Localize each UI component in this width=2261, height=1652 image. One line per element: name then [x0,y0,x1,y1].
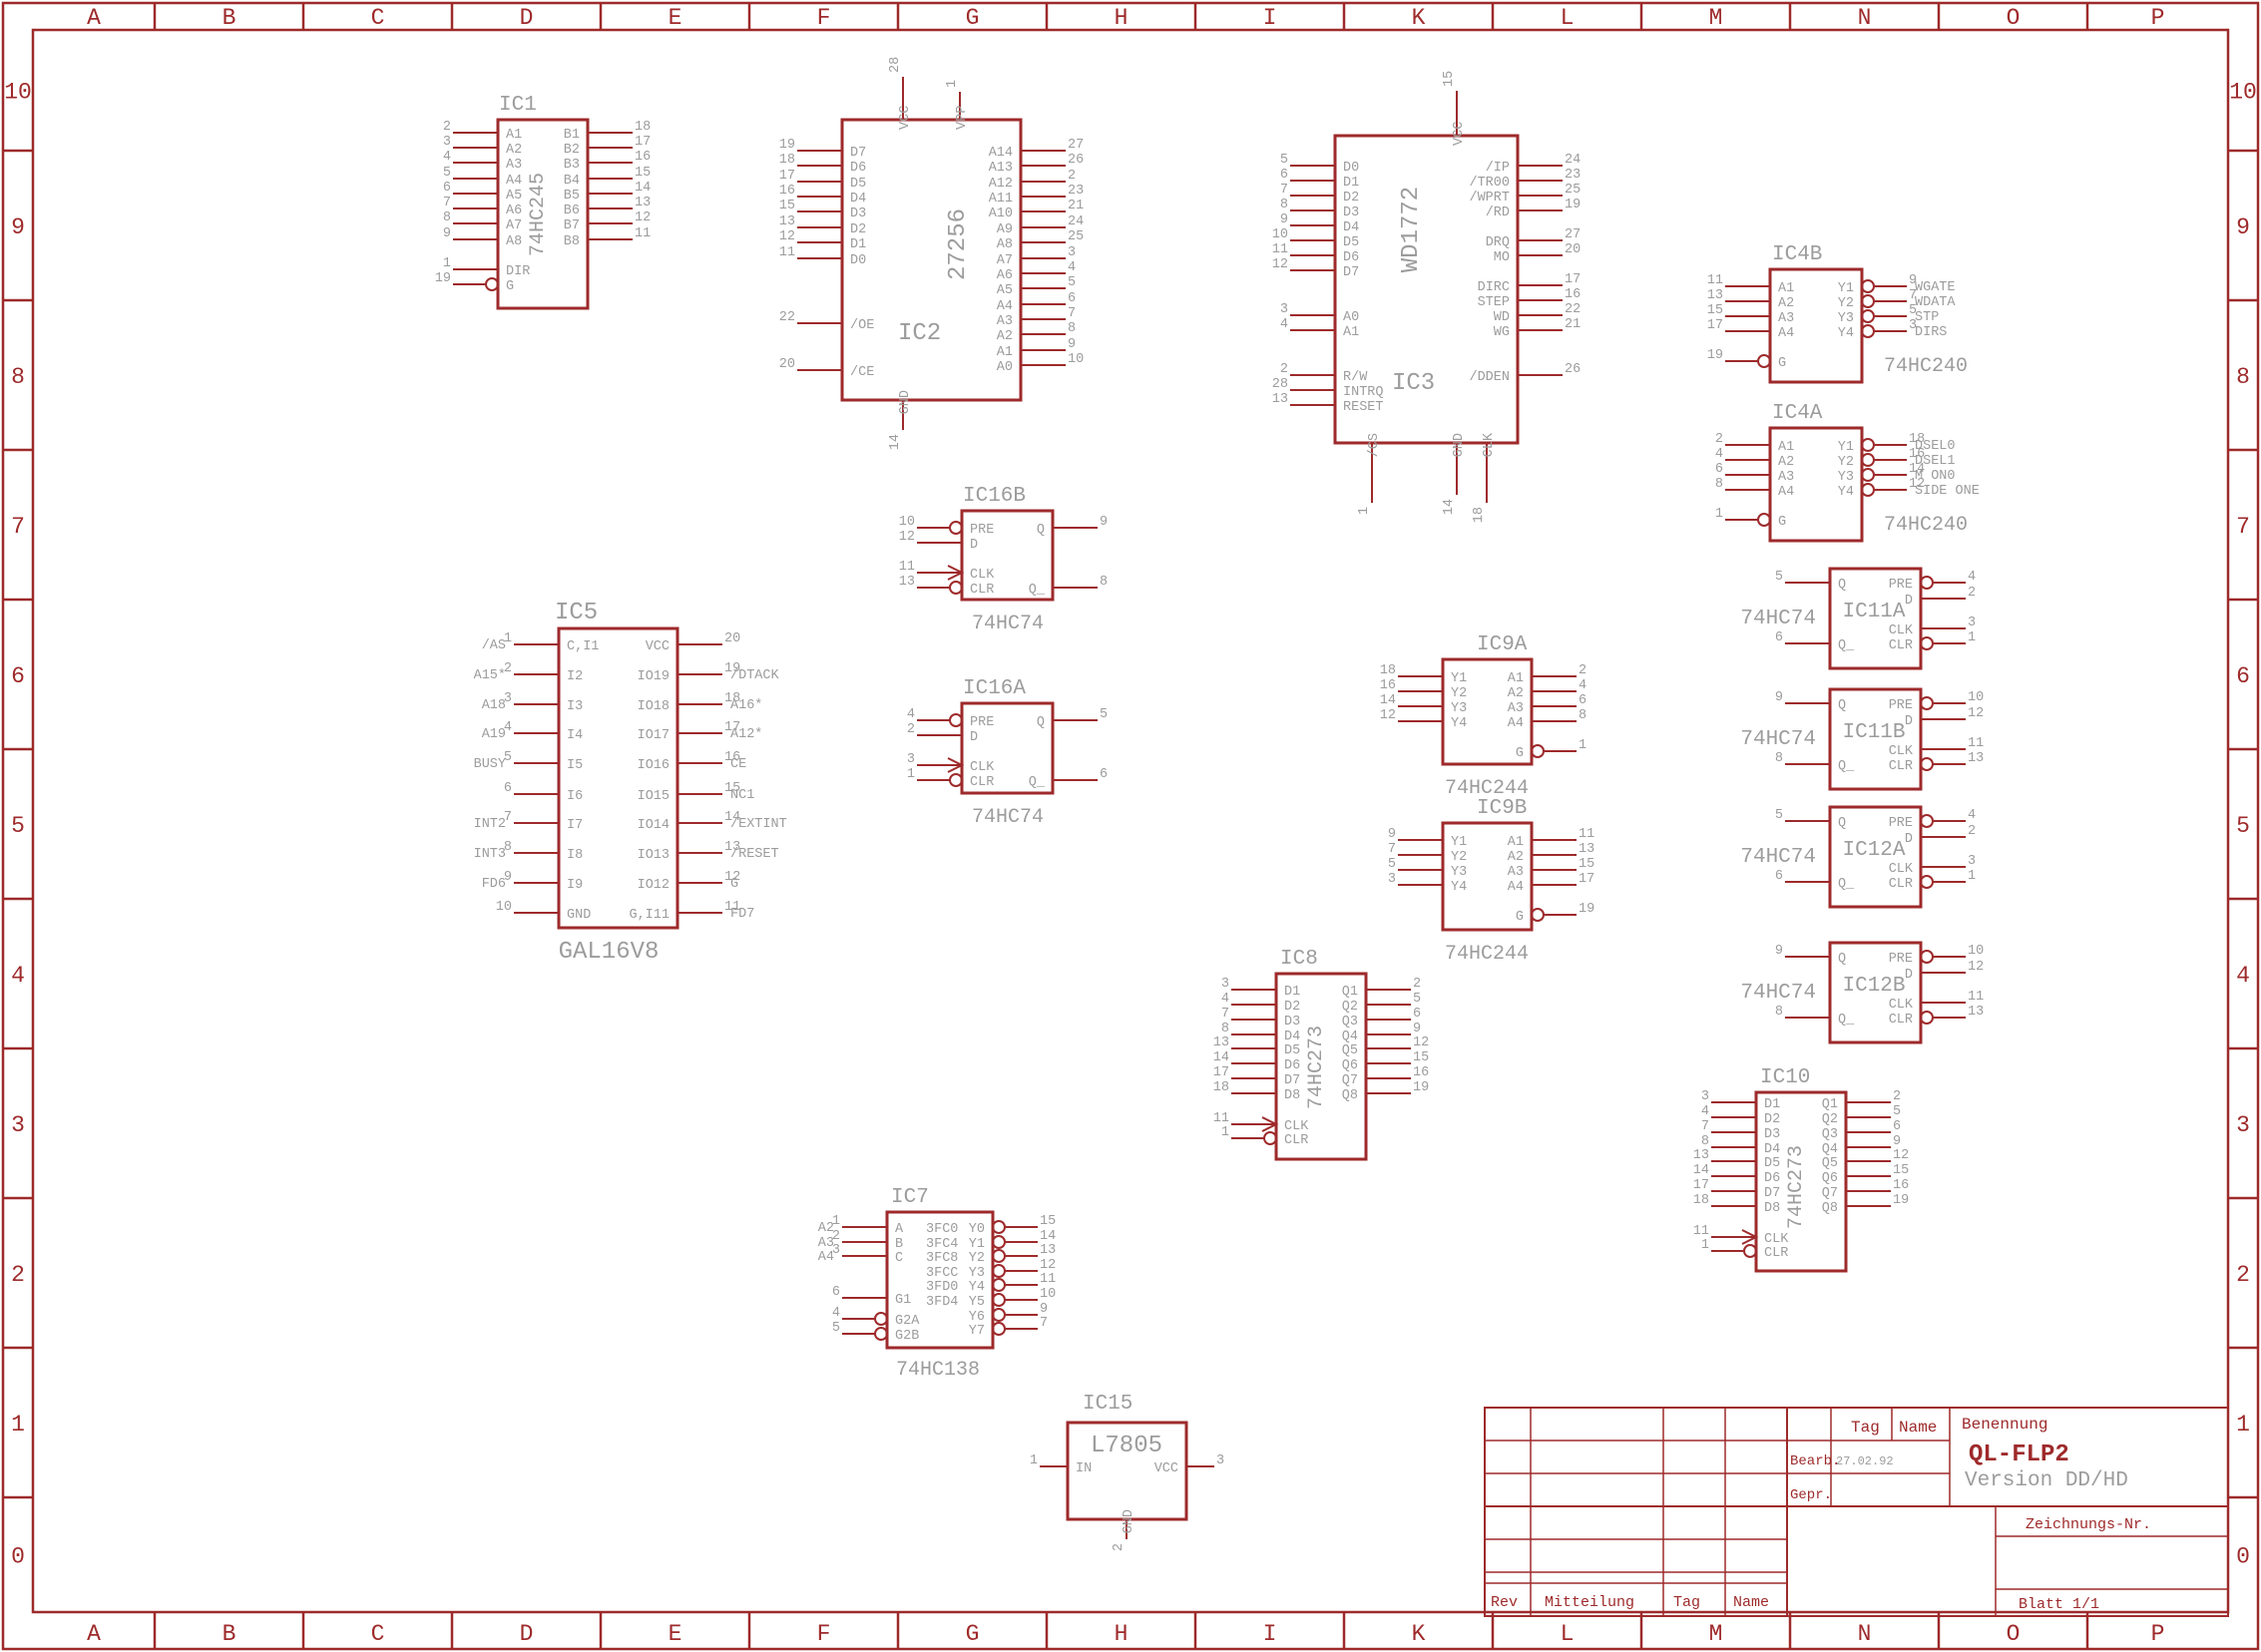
svg-text:Q_: Q_ [1029,583,1046,598]
svg-text:1: 1 [1701,1238,1709,1253]
svg-text:Y2: Y2 [1838,296,1854,311]
svg-text:CLK: CLK [1889,744,1914,759]
svg-text:Q7: Q7 [1342,1073,1358,1088]
svg-text:Q: Q [1037,523,1045,538]
IC U7 74HC138 decoder [818,1186,1056,1382]
svg-text:9: 9 [1893,1134,1901,1149]
svg-text:17: 17 [1693,1178,1709,1193]
IC U15 L7805 regulator [1030,1393,1224,1551]
svg-text:6: 6 [443,181,451,196]
svg-text:G: G [1516,910,1524,925]
svg-text:9: 9 [1280,212,1288,227]
svg-text:D4: D4 [1764,1142,1780,1157]
svg-text:/OE: /OE [850,318,874,333]
svg-text:25: 25 [1068,229,1084,244]
svg-text:G1: G1 [895,1293,911,1308]
svg-text:A: A [895,1222,904,1237]
svg-text:11: 11 [1040,1272,1056,1287]
svg-text:H: H [1115,5,1129,31]
svg-text:IO15: IO15 [638,789,670,804]
svg-text:Benennung: Benennung [1962,1416,2047,1434]
svg-text:12: 12 [779,229,795,244]
svg-text:/IP: /IP [1486,161,1510,176]
svg-text:IC2: IC2 [898,320,941,347]
svg-text:11: 11 [1272,242,1288,257]
svg-text:7: 7 [1280,183,1288,198]
svg-text:L: L [1561,5,1575,31]
svg-text:3: 3 [907,752,915,767]
svg-text:6: 6 [1413,1007,1421,1022]
svg-text:4: 4 [1968,808,1976,823]
svg-text:WD1772: WD1772 [1398,187,1425,272]
svg-text:D2: D2 [1764,1112,1780,1127]
svg-text:17: 17 [1213,1065,1229,1080]
svg-text:PRE: PRE [970,715,994,730]
svg-text:A1: A1 [1343,325,1359,340]
svg-text:2: 2 [1112,1543,1127,1551]
svg-text:4: 4 [1701,1104,1709,1119]
svg-text:5: 5 [1413,992,1421,1007]
svg-text:RESET: RESET [1343,400,1384,415]
svg-text:10: 10 [2229,80,2257,106]
svg-text:19: 19 [1565,198,1581,212]
svg-text:26: 26 [1565,362,1581,377]
svg-text:17: 17 [1707,318,1723,333]
svg-text:IO12: IO12 [638,878,670,893]
svg-text:D: D [970,730,978,745]
svg-text:INTRQ: INTRQ [1343,385,1384,400]
svg-text:1: 1 [1221,1125,1229,1140]
svg-text:Y3: Y3 [1838,470,1854,485]
svg-text:D0: D0 [1343,161,1359,176]
svg-text:A9: A9 [997,222,1013,237]
svg-text:Q: Q [1838,952,1846,967]
svg-text:L: L [1561,1621,1575,1647]
svg-text:18: 18 [635,120,651,135]
svg-text:O: O [2007,1621,2021,1647]
svg-text:8: 8 [1068,321,1076,336]
svg-text:CLR: CLR [1889,1013,1913,1028]
svg-text:A6: A6 [997,268,1013,283]
svg-text:6: 6 [1280,168,1288,183]
svg-text:22: 22 [779,310,795,325]
svg-text:C: C [371,5,385,31]
svg-text:A: A [87,5,101,31]
svg-text:IO14: IO14 [638,818,670,833]
svg-text:P: P [2151,1621,2165,1647]
svg-text:26: 26 [1068,153,1084,168]
svg-text:9: 9 [443,226,451,241]
svg-text:H: H [1115,1621,1129,1647]
svg-text:23: 23 [1565,168,1581,183]
svg-text:14: 14 [888,434,903,450]
svg-text:6: 6 [1579,693,1586,708]
svg-text:20: 20 [1565,242,1581,257]
svg-text:4: 4 [1579,678,1586,693]
svg-text:5: 5 [1388,857,1396,872]
svg-text:5: 5 [1775,808,1783,823]
svg-text:A11: A11 [989,192,1013,206]
svg-text:CLR: CLR [1889,638,1913,653]
svg-text:E: E [669,5,682,31]
svg-text:1: 1 [1968,869,1976,884]
svg-text:PRE: PRE [1889,578,1913,593]
svg-text:2: 2 [1968,824,1976,839]
svg-text:A3: A3 [1778,311,1794,326]
svg-text:15: 15 [779,199,795,213]
svg-text:A7: A7 [997,253,1013,268]
svg-text:CLK: CLK [1482,432,1497,457]
svg-text:A5: A5 [506,189,522,204]
svg-text:6: 6 [1775,869,1783,884]
svg-text:D7: D7 [1343,265,1359,280]
svg-text:16: 16 [1380,678,1396,693]
svg-text:14: 14 [1693,1163,1709,1178]
svg-text:CLK: CLK [1284,1119,1309,1134]
svg-text:VPP: VPP [955,106,970,130]
svg-text:/DDEN: /DDEN [1469,370,1510,385]
svg-text:Q: Q [1838,816,1846,831]
svg-text:Q4: Q4 [1822,1142,1838,1157]
svg-text:12: 12 [1040,1258,1056,1273]
svg-text:G: G [1778,356,1786,371]
IC U11A 74HC74 flip-flop [1775,569,1976,668]
svg-text:2: 2 [1068,169,1076,184]
svg-text:4: 4 [2236,963,2250,989]
svg-text:Blatt 1/1: Blatt 1/1 [2019,1596,2099,1613]
svg-text:A10: A10 [989,206,1013,221]
svg-text:B4: B4 [564,174,580,189]
svg-text:/CE: /CE [850,365,874,380]
svg-text:D5: D5 [1284,1043,1300,1058]
svg-text:QL-FLP2: QL-FLP2 [1969,1442,2069,1468]
svg-text:7: 7 [1221,1007,1229,1022]
svg-text:A7: A7 [506,218,522,233]
svg-text:D7: D7 [1284,1073,1300,1088]
svg-text:G: G [1516,746,1524,761]
svg-text:5: 5 [443,166,451,181]
svg-text:D1: D1 [1284,985,1300,1000]
svg-text:17: 17 [635,135,651,150]
svg-text:A12*: A12* [730,727,762,742]
svg-text:F: F [817,1621,831,1647]
svg-text:D6: D6 [1284,1058,1300,1073]
svg-text:11: 11 [1968,736,1984,751]
svg-text:Q8: Q8 [1822,1201,1838,1216]
svg-text:9: 9 [1388,827,1396,842]
svg-text:17: 17 [1565,272,1581,287]
svg-text:MO: MO [1494,250,1510,265]
svg-text:3: 3 [11,1112,25,1138]
svg-text:Tag: Tag [1673,1594,1700,1611]
svg-text:I9: I9 [567,878,583,893]
svg-text:CLK: CLK [1889,998,1914,1013]
svg-text:13: 13 [1968,1005,1984,1020]
svg-text:D4: D4 [1284,1030,1300,1044]
svg-text:2: 2 [2236,1262,2250,1288]
svg-text:CE: CE [730,757,746,772]
svg-text:A1: A1 [1778,281,1794,296]
svg-text:D5: D5 [850,177,866,192]
svg-text:15: 15 [1707,303,1723,318]
svg-text:PRE: PRE [1889,816,1913,831]
svg-text:Y3: Y3 [1838,311,1854,326]
svg-text:14: 14 [1040,1229,1056,1244]
svg-text:I: I [1263,1621,1277,1647]
svg-text:GAL16V8: GAL16V8 [559,939,660,966]
svg-text:K: K [1412,1621,1426,1647]
svg-text:A13: A13 [989,161,1013,176]
svg-text:2: 2 [1893,1089,1901,1104]
svg-text:3: 3 [443,135,451,150]
svg-text:IC4A: IC4A [1772,402,1823,425]
svg-text:Q6: Q6 [1342,1058,1358,1073]
svg-text:4: 4 [11,963,25,989]
svg-text:VCC: VCC [646,639,670,654]
svg-text:1: 1 [1968,630,1976,645]
svg-text:/EXTINT: /EXTINT [730,817,787,832]
svg-text:23: 23 [1068,184,1084,199]
svg-text:27: 27 [1068,138,1084,153]
svg-text:A: A [87,1621,101,1647]
svg-text:/WPRT: /WPRT [1469,191,1510,206]
svg-text:A14: A14 [989,146,1013,161]
svg-text:4: 4 [1068,260,1076,275]
svg-text:/CS: /CS [1367,433,1382,457]
svg-text:13: 13 [635,196,651,210]
svg-text:Y0: Y0 [969,1222,985,1237]
svg-text:G: G [1778,515,1786,530]
svg-text:STEP: STEP [1478,295,1510,310]
svg-text:Mitteilung: Mitteilung [1545,1594,1634,1611]
svg-text:8: 8 [443,210,451,225]
svg-text:D8: D8 [1284,1088,1300,1103]
svg-text:VCC: VCC [898,106,913,130]
svg-text:Y6: Y6 [969,1310,985,1325]
svg-text:5: 5 [1280,153,1288,168]
svg-text:4: 4 [1968,570,1976,585]
svg-text:14: 14 [1442,499,1457,515]
svg-text:16: 16 [635,150,651,165]
svg-text:19: 19 [779,138,795,153]
svg-text:G: G [966,1621,980,1647]
IC U12B 74HC74 flip-flop [1775,943,1984,1042]
svg-text:8: 8 [1701,1134,1709,1149]
svg-text:19: 19 [435,271,451,286]
svg-text:15: 15 [1040,1214,1056,1229]
svg-text:7: 7 [2236,514,2250,540]
svg-text:Y7: Y7 [969,1324,985,1339]
svg-text:12: 12 [635,210,651,225]
svg-text:D4: D4 [850,192,866,206]
svg-text:A1: A1 [506,128,522,143]
svg-text:Y3: Y3 [969,1266,985,1281]
svg-text:D3: D3 [850,206,866,221]
svg-text:WD: WD [1494,310,1510,325]
svg-text:Y1: Y1 [1451,835,1467,850]
svg-text:B3: B3 [564,158,580,173]
svg-text:WGATE: WGATE [1915,280,1956,295]
svg-text:/TR00: /TR00 [1469,176,1510,191]
svg-text:9: 9 [1775,690,1783,705]
svg-text:DRQ: DRQ [1486,235,1510,250]
svg-text:D8: D8 [1764,1201,1780,1216]
svg-text:10: 10 [496,900,512,915]
svg-text:1: 1 [1579,738,1586,753]
svg-text:13: 13 [1272,392,1288,407]
svg-text:D: D [1905,714,1913,729]
svg-text:A2: A2 [1778,296,1794,311]
svg-text:Q2: Q2 [1822,1112,1838,1127]
svg-text:10: 10 [1068,352,1084,367]
svg-text:4: 4 [1221,992,1229,1007]
svg-text:D1: D1 [1343,176,1359,191]
svg-text:19: 19 [1893,1193,1909,1208]
svg-text:M: M [1709,5,1723,31]
svg-text:12: 12 [1413,1035,1429,1050]
svg-text:5: 5 [1775,570,1783,585]
svg-text:IC5: IC5 [555,600,598,626]
svg-text:E: E [669,1621,682,1647]
svg-text:3: 3 [1280,302,1288,317]
svg-text:G,I11: G,I11 [629,908,670,923]
svg-text:3: 3 [1968,616,1976,630]
svg-text:0: 0 [11,1544,25,1570]
svg-text:D: D [1905,968,1913,983]
svg-text:Gepr.: Gepr. [1790,1487,1832,1503]
svg-text:Y1: Y1 [1838,440,1854,455]
svg-text:A4: A4 [1778,326,1794,341]
svg-text:12: 12 [1893,1148,1909,1163]
svg-text:6: 6 [11,663,25,689]
svg-text:PRE: PRE [1889,952,1913,967]
svg-text:D0: D0 [850,253,866,268]
svg-text:D7: D7 [1764,1186,1780,1201]
svg-text:A8: A8 [506,234,522,249]
svg-text:B8: B8 [564,234,580,249]
svg-text:10: 10 [4,80,32,106]
svg-text:16: 16 [1413,1065,1429,1080]
svg-text:O: O [2007,5,2021,31]
svg-text:8: 8 [1280,198,1288,212]
svg-text:3FD4: 3FD4 [926,1295,958,1310]
svg-text:G: G [506,279,514,294]
svg-text:Y4: Y4 [969,1280,985,1295]
svg-text:4: 4 [1715,447,1723,462]
svg-text:Name: Name [1733,1594,1769,1611]
svg-text:74HC273: 74HC273 [1305,1026,1328,1109]
svg-text:A1: A1 [1508,671,1524,686]
svg-text:18: 18 [1472,507,1487,523]
svg-text:19: 19 [1707,348,1723,363]
svg-text:6: 6 [1775,630,1783,645]
svg-text:L7805: L7805 [1091,1433,1162,1459]
svg-text:A2: A2 [997,329,1013,344]
svg-text:9: 9 [1040,1302,1048,1317]
svg-text:11: 11 [1579,827,1594,842]
svg-text:DIR: DIR [506,264,530,279]
svg-text:B2: B2 [564,143,580,158]
svg-text:CLK: CLK [1889,623,1914,638]
IC U8 74HC273 latch [1213,948,1429,1159]
svg-text:7: 7 [1068,306,1076,321]
svg-text:0: 0 [2236,1544,2250,1570]
svg-text:A0: A0 [997,360,1013,375]
svg-text:Y4: Y4 [1451,880,1467,895]
svg-text:Y4: Y4 [1838,326,1854,341]
svg-text:D2: D2 [1284,1000,1300,1015]
svg-text:17: 17 [1579,872,1594,887]
svg-text:I5: I5 [567,758,583,773]
svg-text:Q8: Q8 [1342,1088,1358,1103]
svg-text:3: 3 [1216,1453,1224,1468]
svg-text:VCC: VCC [1452,122,1467,146]
svg-text:Y2: Y2 [1451,686,1467,701]
svg-text:/RD: /RD [1486,206,1510,220]
svg-text:D2: D2 [1343,191,1359,206]
svg-text:CLR: CLR [970,775,994,790]
svg-text:STP: STP [1915,310,1939,325]
svg-text:74HC138: 74HC138 [896,1359,980,1382]
svg-text:20: 20 [724,631,740,646]
svg-text:B7: B7 [564,218,580,233]
svg-text:CLR: CLR [1889,877,1913,892]
svg-text:1: 1 [11,1412,25,1438]
svg-text:16: 16 [1893,1178,1909,1193]
svg-text:Q5: Q5 [1822,1156,1838,1171]
svg-text:A2: A2 [506,143,522,158]
svg-text:3FC4: 3FC4 [926,1237,958,1252]
svg-text:Y2: Y2 [1838,455,1854,470]
svg-text:74HC245: 74HC245 [527,173,550,256]
svg-text:15: 15 [1893,1163,1909,1178]
title block [1485,1408,2228,1616]
svg-text:8: 8 [2236,364,2250,390]
svg-text:D1: D1 [850,237,866,252]
svg-text:2: 2 [1280,362,1288,377]
svg-text:2: 2 [11,1262,25,1288]
svg-text:INT2: INT2 [474,817,506,832]
svg-text:Q5: Q5 [1342,1043,1358,1058]
svg-text:Version DD/HD: Version DD/HD [1965,1469,2128,1492]
svg-text:D3: D3 [1764,1127,1780,1142]
svg-text:6: 6 [2236,663,2250,689]
svg-text:19: 19 [1579,902,1594,917]
svg-text:3: 3 [1968,854,1976,869]
svg-text:9: 9 [1068,337,1076,352]
svg-text:2: 2 [907,722,915,737]
svg-text:Q: Q [1037,715,1045,730]
svg-text:10: 10 [1968,944,1984,959]
svg-text:3: 3 [1068,245,1076,260]
svg-text:D: D [520,5,534,31]
svg-text:4: 4 [443,150,451,165]
svg-text:12: 12 [1968,960,1984,975]
svg-text:IO13: IO13 [638,848,670,863]
svg-text:A3: A3 [1508,865,1524,880]
svg-text:D1: D1 [1764,1097,1780,1112]
svg-text:A18: A18 [482,698,506,713]
svg-text:A2: A2 [1508,686,1524,701]
svg-text:A6: A6 [506,204,522,218]
svg-text:I7: I7 [567,818,583,833]
svg-text:Y3: Y3 [1451,865,1467,880]
svg-text:D6: D6 [850,161,866,176]
svg-text:A1: A1 [997,345,1013,360]
svg-text:11: 11 [1213,1111,1229,1126]
svg-text:9: 9 [1775,944,1783,959]
svg-text:11: 11 [899,560,915,575]
